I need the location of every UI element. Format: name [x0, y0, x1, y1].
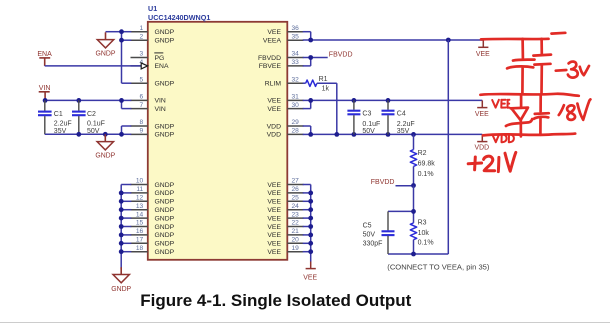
svg-text:22: 22: [292, 220, 300, 227]
svg-text:R3: R3: [418, 220, 427, 227]
svg-text:GNDP: GNDP: [155, 81, 175, 88]
U1 pin 22 (VEE): [267, 220, 303, 231]
capacitor C3 0.1uF: [347, 100, 380, 135]
svg-text:RLIM: RLIM: [265, 81, 282, 88]
svg-text:0.1uF: 0.1uF: [362, 121, 380, 128]
svg-text:VEE: VEE: [267, 106, 281, 113]
U1 pin 25 (VEE): [267, 195, 303, 206]
node vertical-bus junction: [446, 38, 451, 43]
svg-text:FBVEE: FBVEE: [259, 63, 282, 70]
svg-text:VDD: VDD: [475, 145, 490, 152]
svg-text:6: 6: [140, 94, 144, 101]
U1 pin 18 (GNDP): [131, 245, 175, 256]
svg-text:PG: PG: [155, 55, 165, 62]
svg-text:FBVDD: FBVDD: [258, 55, 281, 62]
capacitor red Cc (18V cap): [534, 95, 549, 135]
svg-text:35V: 35V: [397, 128, 410, 135]
svg-text:2: 2: [140, 33, 144, 40]
svg-text:Figure 4-1. Single Isolated Ou: Figure 4-1. Single Isolated Output: [140, 291, 411, 310]
op-amp / converter IC U1 UCC14240DWNQ1 body: [148, 22, 287, 260]
U1 pin 4 (ENA): [131, 59, 169, 70]
svg-text:35: 35: [292, 33, 300, 40]
node ENA net flag: [37, 51, 52, 66]
svg-text:0.1%: 0.1%: [418, 239, 434, 246]
wire VEE bus pins 27-19: [303, 185, 311, 262]
svg-text:VIN: VIN: [39, 85, 51, 92]
svg-text:R2: R2: [418, 150, 427, 157]
node C5 top junction: [411, 209, 416, 214]
ground GNDP (bottom-left): [111, 267, 131, 293]
U1 pin 20 (VEE): [267, 237, 303, 248]
svg-text:9: 9: [140, 128, 144, 135]
svg-text:34: 34: [292, 51, 300, 58]
svg-text:2.2uF: 2.2uF: [54, 121, 72, 128]
node GNDP junction: [103, 132, 108, 137]
svg-text:VEE: VEE: [475, 111, 489, 118]
node VDD net label (right): [475, 134, 490, 151]
figure caption: [140, 291, 411, 310]
node FBVDD divider tap: [371, 179, 416, 188]
red label -3v: [556, 62, 589, 78]
node pin 16 junction: [119, 233, 124, 238]
U1 pin 16 (GNDP): [131, 228, 175, 239]
red label VDD: [492, 134, 514, 142]
svg-text:R1: R1: [319, 76, 328, 83]
node pin 17 junction: [119, 241, 124, 246]
node pin6/7 junction: [119, 98, 124, 103]
svg-text:16: 16: [136, 228, 144, 235]
capacitor C5 330pF: [363, 211, 414, 254]
svg-text:C1: C1: [54, 111, 63, 118]
wire red top VEE rail extension: [481, 37, 549, 40]
svg-text:50V: 50V: [363, 231, 376, 238]
svg-text:VEE: VEE: [476, 51, 490, 58]
svg-text:32: 32: [292, 76, 300, 83]
ground GNDP (top-left): [96, 32, 116, 57]
U1 pin 28 (VDD): [267, 128, 304, 139]
svg-text:VEE: VEE: [267, 232, 281, 239]
node pin 18 junction: [119, 249, 124, 254]
svg-text:10k: 10k: [418, 230, 430, 237]
wire VDD rail: [303, 126, 483, 134]
svg-text:VEE: VEE: [267, 249, 281, 256]
U1 pin 30 (VEE): [267, 102, 303, 113]
svg-text:FBVDD: FBVDD: [371, 179, 395, 186]
node FBVDD net label: [329, 52, 353, 59]
wire GNDP bottom rail: [45, 126, 132, 134]
node VEE net label (top right): [476, 40, 490, 58]
svg-text:33: 33: [292, 59, 300, 66]
svg-text:VDD: VDD: [267, 123, 281, 130]
svg-text:27: 27: [292, 178, 300, 185]
node pin 23 junction: [308, 216, 313, 221]
svg-text:C3: C3: [362, 111, 371, 118]
svg-text:GNDP: GNDP: [155, 249, 175, 256]
capacitor C2: [72, 100, 105, 135]
wire red VDD rail: [483, 134, 575, 136]
svg-text:25: 25: [292, 195, 300, 202]
red label +21V: [468, 152, 516, 171]
svg-text:VEEA: VEEA: [263, 38, 282, 45]
U1 pin 33 (FBVEE): [259, 59, 304, 70]
node pin 25 junction: [308, 199, 313, 204]
node pin 19 junction: [308, 249, 313, 254]
node VIN net flag: [39, 85, 51, 101]
svg-text:GNDP: GNDP: [155, 132, 175, 139]
wire right vertical bus to VEEA: [388, 40, 448, 254]
svg-text:VEE: VEE: [267, 241, 281, 248]
node pin 11 junction: [119, 191, 124, 196]
svg-text:C4: C4: [397, 111, 406, 118]
node C4 bottom junction: [386, 132, 391, 137]
wire GNDP bus pins 10-18: [121, 185, 131, 270]
svg-text:1k: 1k: [322, 86, 330, 93]
svg-text:11: 11: [136, 186, 143, 193]
node C2 bottom junction: [76, 132, 81, 137]
svg-text:UCC14240DWNQ1: UCC14240DWNQ1: [148, 13, 210, 22]
node pin1 junction: [119, 29, 124, 34]
svg-text:VEE: VEE: [267, 224, 281, 231]
svg-text:17: 17: [136, 237, 144, 244]
node pin2 junction: [119, 38, 124, 43]
U1 pin 11 (GNDP): [131, 186, 175, 197]
node pin 14 junction: [119, 216, 124, 221]
node C3 top junction: [352, 98, 357, 103]
U1 pin 12 (GNDP): [131, 195, 175, 206]
U1 pin 10 (GNDP): [131, 178, 175, 189]
U1 pin 24 (VEE): [267, 203, 303, 214]
U1 pin 6 (VIN): [131, 94, 166, 105]
svg-text:GNDP: GNDP: [95, 152, 115, 159]
svg-text:VIN: VIN: [155, 106, 166, 113]
svg-text:23: 23: [292, 211, 300, 218]
U1 pin 7 (VIN): [131, 102, 166, 113]
node pin34 junction: [308, 55, 313, 60]
U1 pin 29 (VDD): [267, 119, 304, 130]
resistor R3 10k: [410, 186, 433, 255]
U1 pin 36 (VEE): [267, 25, 303, 36]
svg-text:GNDP: GNDP: [155, 29, 175, 36]
svg-text:VEE: VEE: [267, 190, 281, 197]
svg-text:ENA: ENA: [155, 63, 169, 70]
svg-text:GNDP: GNDP: [155, 207, 175, 214]
U1 pin 3 (PG): [131, 51, 165, 62]
node pin 24 junction: [308, 207, 313, 212]
U1 pin 15 (GNDP): [131, 220, 175, 231]
U1 pin 23 (VEE): [267, 211, 303, 222]
U1 pin 17 (GNDP): [131, 237, 175, 248]
svg-text:24: 24: [292, 203, 300, 210]
svg-text:VDD: VDD: [267, 132, 281, 139]
svg-text:GNDP: GNDP: [155, 190, 175, 197]
red minus polarity mark: [552, 31, 566, 34]
svg-text:GNDP: GNDP: [155, 241, 175, 248]
wire red mid VEE rail: [480, 94, 578, 96]
resistor R1 1k: [303, 76, 337, 134]
U1 pin 9 (GNDP): [131, 128, 175, 139]
node pin 21 junction: [308, 233, 313, 238]
svg-text:VEE: VEE: [267, 199, 281, 206]
svg-text:69.8k: 69.8k: [418, 161, 436, 168]
U1 pin 32 (RLIM): [265, 76, 304, 87]
svg-text:FBVDD: FBVDD: [329, 52, 353, 59]
svg-text:330pF: 330pF: [363, 240, 383, 247]
svg-text:GNDP: GNDP: [155, 182, 175, 189]
U1 pin 19 (VEE): [267, 245, 303, 256]
svg-text:GNDP: GNDP: [155, 215, 175, 222]
svg-text:13: 13: [136, 203, 144, 210]
svg-text:8: 8: [140, 119, 144, 126]
node VEE net label (mid right): [475, 100, 489, 118]
node R2 top junction: [411, 132, 416, 137]
capacitor red Cb (output -3V filter, right): [533, 39, 551, 94]
U1 pin 34 (FBVDD): [258, 51, 304, 62]
svg-text:VEE: VEE: [267, 182, 281, 189]
svg-text:30: 30: [292, 102, 300, 109]
svg-text:VIN: VIN: [155, 98, 166, 105]
wire VIN rail: [45, 100, 131, 108]
svg-text:GNDP: GNDP: [155, 232, 175, 239]
node pin 22 junction: [308, 224, 313, 229]
svg-text:50V: 50V: [362, 128, 375, 135]
svg-text:2.2uF: 2.2uF: [397, 121, 415, 128]
svg-text:7: 7: [140, 102, 144, 109]
red label 18v: [559, 99, 591, 119]
diode red zener (18V): [506, 95, 532, 136]
svg-text:VEE: VEE: [267, 207, 281, 214]
svg-text:12: 12: [136, 195, 144, 202]
U1 pin 27 (VEE): [267, 178, 303, 189]
svg-text:5: 5: [140, 76, 144, 83]
node VEE net flag (bottom): [303, 262, 317, 282]
svg-text:GNDP: GNDP: [111, 286, 131, 293]
svg-text:28: 28: [292, 128, 300, 135]
svg-text:GNDP: GNDP: [155, 199, 175, 206]
node VIN junction: [43, 98, 48, 103]
svg-text:0.1%: 0.1%: [418, 171, 434, 178]
svg-text:26: 26: [292, 186, 300, 193]
node C2 top junction: [76, 98, 81, 103]
svg-text:31: 31: [292, 94, 300, 101]
svg-text:GNDP: GNDP: [155, 123, 175, 130]
red label VEE (mid): [492, 100, 509, 108]
svg-text:C5: C5: [363, 222, 372, 229]
svg-text:GNDP: GNDP: [96, 51, 116, 58]
svg-text:GNDP: GNDP: [155, 38, 175, 45]
node pin35 junction: [308, 38, 313, 43]
U1 pin 31 (VEE): [267, 94, 303, 105]
U1 pin 13 (GNDP): [131, 203, 175, 214]
svg-text:1: 1: [140, 25, 144, 32]
pin 4 input arrow: [141, 63, 147, 69]
node pin31 junction: [308, 98, 313, 103]
svg-text:0.1uF: 0.1uF: [87, 121, 105, 128]
svg-text:U1: U1: [148, 4, 157, 13]
svg-text:VEE: VEE: [267, 98, 281, 105]
node pin 26 junction: [308, 191, 313, 196]
svg-text:VEE: VEE: [267, 29, 281, 36]
U1 pin 1 (GNDP): [131, 25, 175, 36]
U1 pin 14 (GNDP): [131, 211, 175, 222]
wire GNDP to pin1/pin2 bus: [106, 32, 132, 83]
U1 reference designator: [148, 4, 210, 22]
wire FBVDD/FBVEE tie: [303, 58, 328, 66]
node R1 drop junction: [334, 132, 339, 137]
U1 pin 2 (GNDP): [131, 33, 175, 44]
svg-text:20: 20: [292, 237, 300, 244]
node C4 top junction: [386, 98, 391, 103]
node pin 15 junction: [119, 224, 124, 229]
svg-text:36: 36: [292, 25, 300, 32]
U1 pin 21 (VEE): [267, 228, 303, 239]
node C5 bottom junction: [411, 252, 416, 257]
node pin8/9 junction: [119, 132, 124, 137]
note CONNECT TO VEEA: [387, 263, 490, 272]
wire VEE mid rail: [303, 100, 483, 108]
svg-text:15: 15: [136, 220, 144, 227]
svg-text:10: 10: [136, 178, 144, 185]
wire VEEA top rail: [303, 32, 484, 40]
ground GNDP (below C2): [95, 134, 115, 159]
svg-text:29: 29: [292, 119, 300, 126]
svg-text:GNDP: GNDP: [155, 224, 175, 231]
capacitor red Ca (output -3V filter, left): [507, 39, 534, 93]
svg-text:(CONNECT TO VEEA, pin 35): (CONNECT TO VEEA, pin 35): [387, 263, 490, 272]
svg-text:VEE: VEE: [303, 275, 317, 282]
svg-text:C2: C2: [87, 111, 96, 118]
node pin 20 junction: [308, 241, 313, 246]
node pin28 junction: [308, 132, 313, 137]
svg-text:3: 3: [140, 51, 144, 58]
U1 pin 26 (VEE): [267, 186, 303, 197]
separator line: [0, 322, 610, 324]
node pin 12 junction: [119, 199, 124, 204]
svg-text:19: 19: [292, 245, 300, 252]
svg-text:14: 14: [136, 211, 144, 218]
wire ENA to pin 4: [45, 65, 141, 67]
svg-text:18: 18: [136, 245, 144, 252]
U1 pin 5 (GNDP): [131, 76, 175, 87]
capacitor C4 2.2uF: [382, 100, 415, 135]
svg-text:21: 21: [292, 228, 300, 235]
node C3 bottom junction: [352, 132, 357, 137]
U1 pin 8 (GNDP): [131, 119, 175, 130]
resistor R2 69.8k: [410, 134, 435, 185]
U1 pin 35 (VEEA): [263, 33, 304, 44]
capacitor C1: [38, 100, 72, 135]
svg-text:VEE: VEE: [267, 215, 281, 222]
node pin 13 junction: [119, 207, 124, 212]
